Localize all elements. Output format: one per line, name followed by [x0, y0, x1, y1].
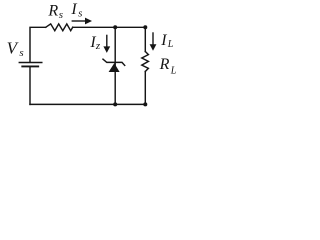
svg-text:s: s: [78, 7, 82, 19]
svg-text:L: L: [167, 39, 174, 50]
svg-text:R: R: [159, 56, 170, 73]
svg-text:z: z: [95, 40, 101, 52]
svg-text:R: R: [47, 2, 58, 19]
svg-text:s: s: [19, 47, 23, 59]
svg-text:s: s: [59, 9, 63, 21]
svg-text:V: V: [7, 38, 20, 57]
svg-text:L: L: [170, 65, 177, 76]
svg-text:I: I: [70, 1, 77, 18]
svg-text:I: I: [160, 32, 167, 49]
